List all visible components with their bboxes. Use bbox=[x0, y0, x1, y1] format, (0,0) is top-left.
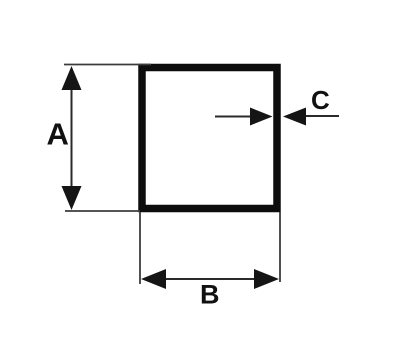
dimension C left arrow bbox=[215, 108, 273, 126]
dimension line B bbox=[141, 269, 279, 289]
extension line bottom (A) bbox=[65, 210, 140, 212]
extension line left (B) bbox=[139, 212, 141, 284]
label A bbox=[47, 117, 69, 152]
svg-text:C: C bbox=[311, 85, 330, 115]
square tube profile outline bbox=[142, 68, 277, 209]
svg-text:B: B bbox=[200, 280, 220, 310]
dimension C right arrow bbox=[283, 108, 339, 126]
extension line top (A) bbox=[64, 64, 151, 66]
svg-text:A: A bbox=[47, 117, 69, 152]
extension line right (B) bbox=[279, 212, 281, 282]
label B bbox=[200, 280, 220, 310]
dimension line A bbox=[62, 66, 82, 210]
label C bbox=[311, 85, 330, 115]
